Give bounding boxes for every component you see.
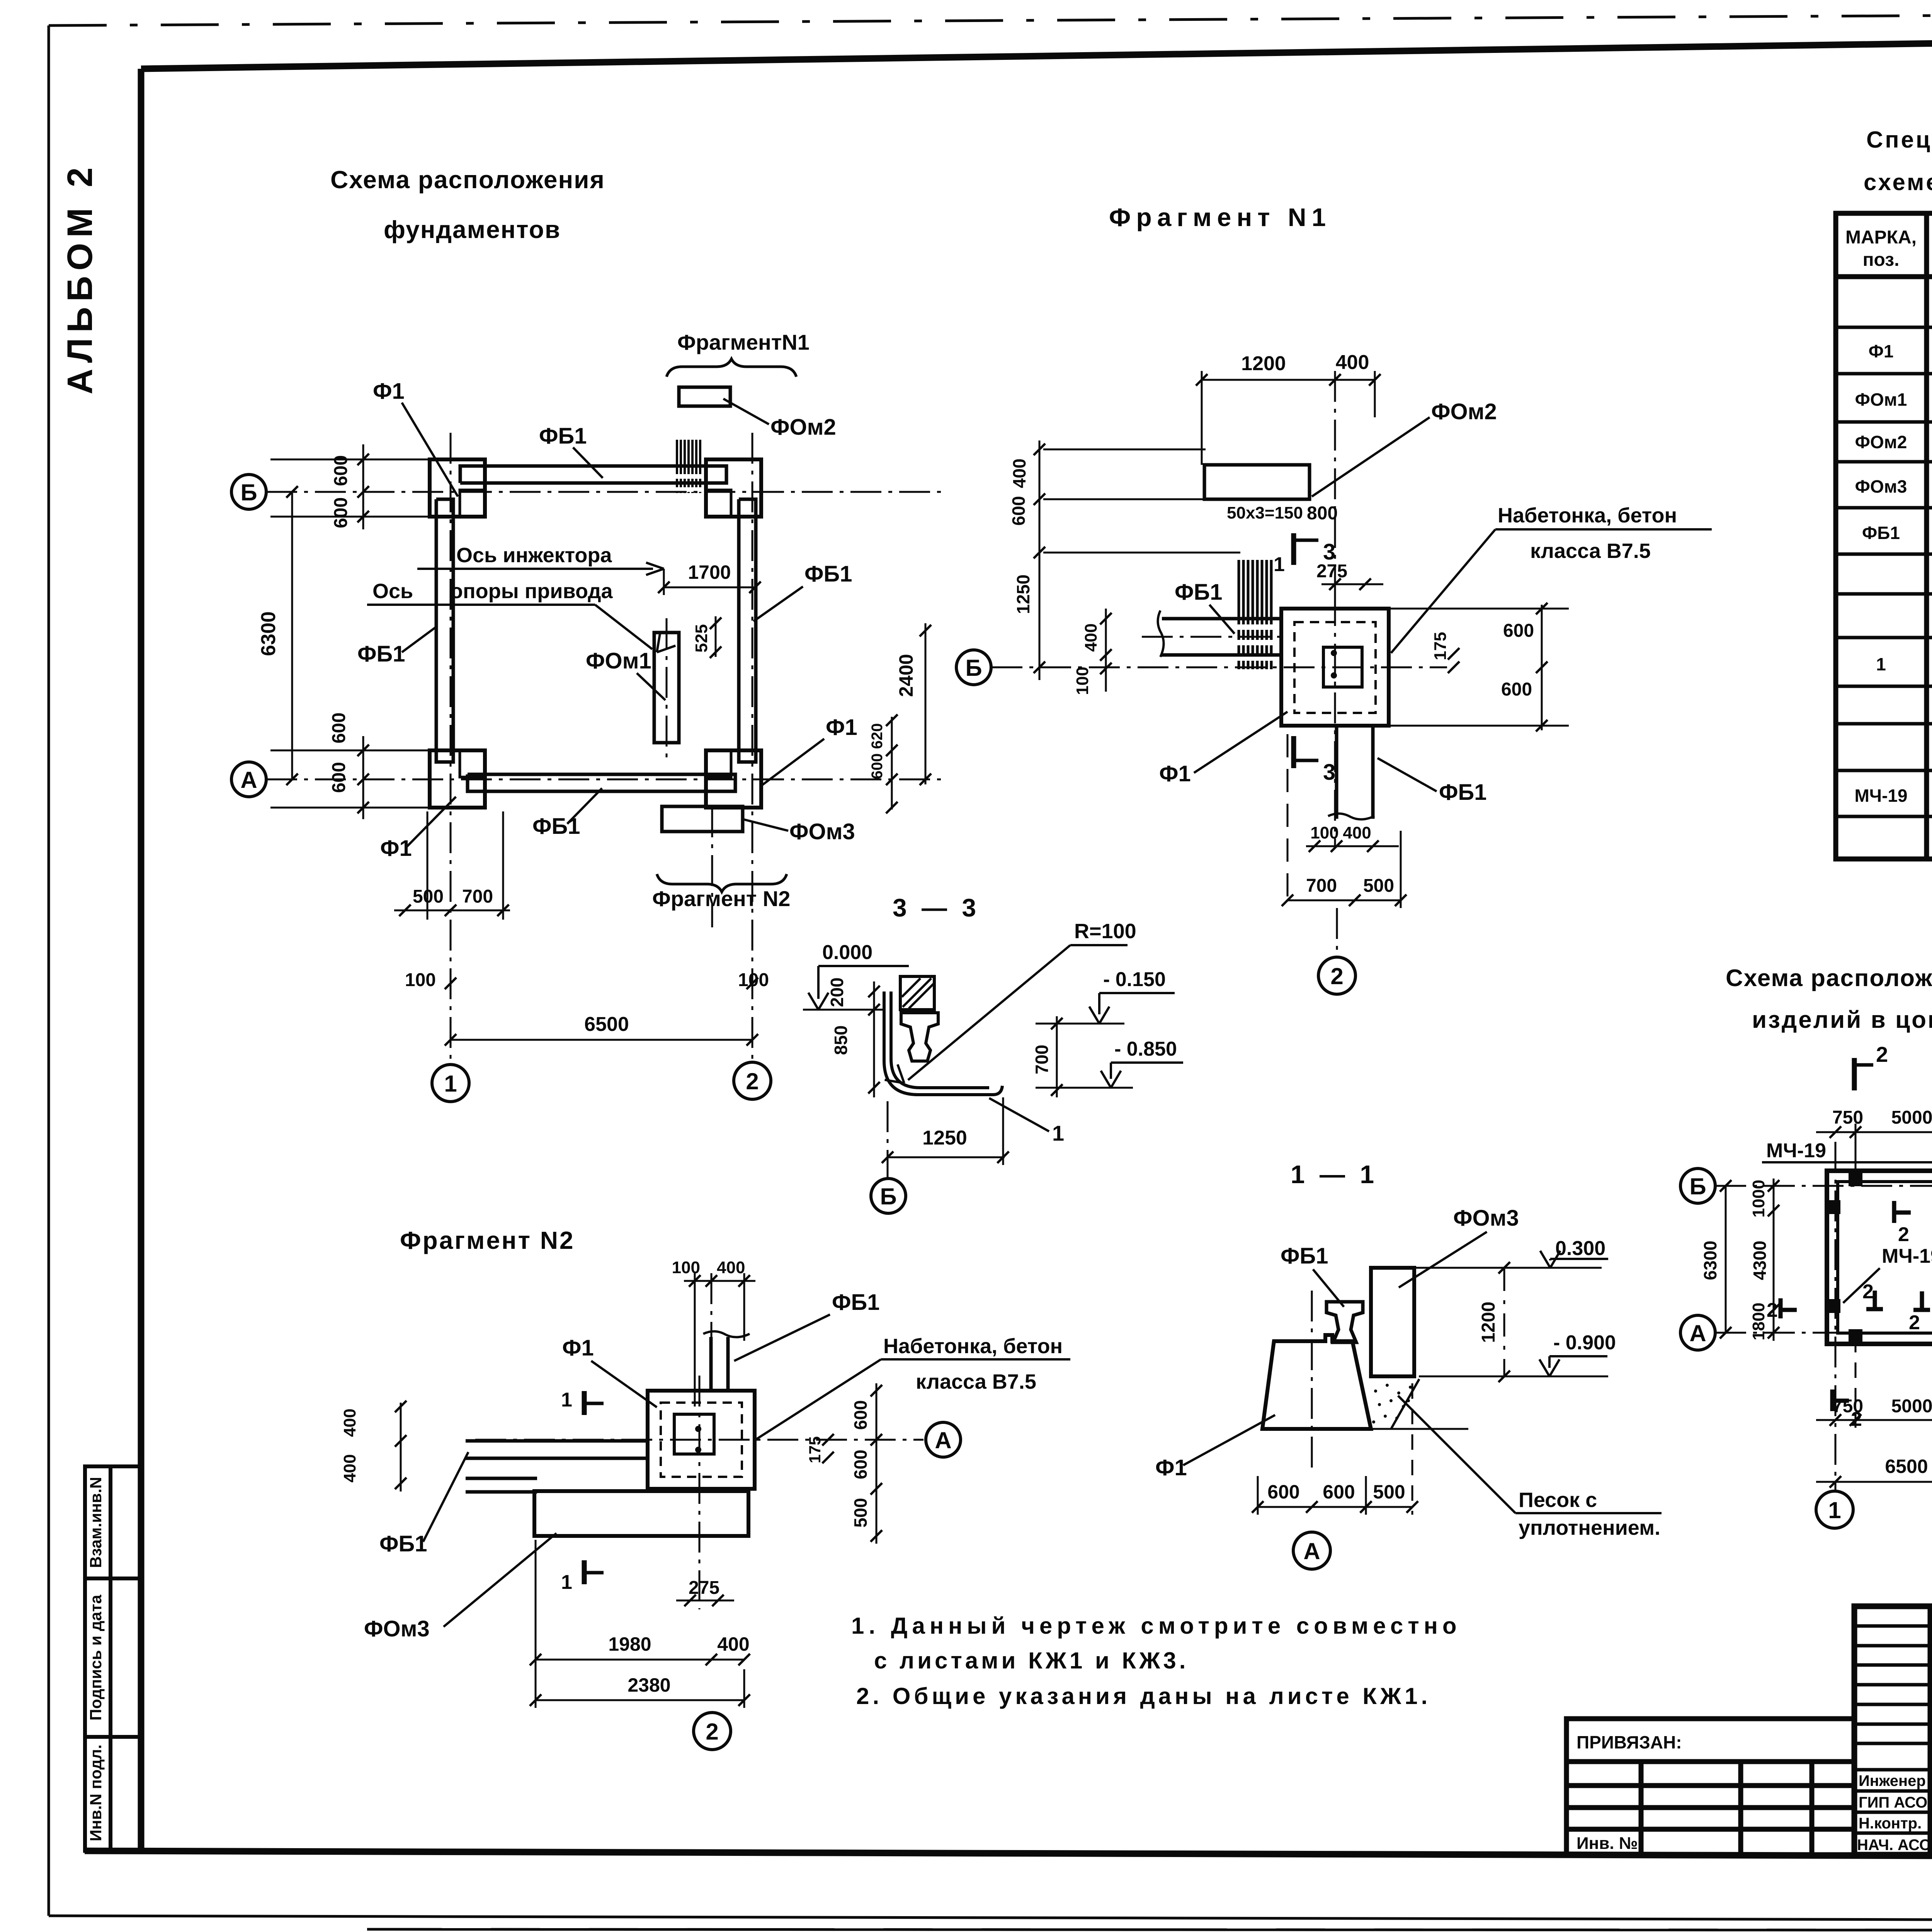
svg-text:ФБ1: ФБ1 [1175, 580, 1222, 605]
svg-text:ПРИВЯЗАН:: ПРИВЯЗАН: [1577, 1732, 1682, 1752]
svg-text:- 0.900: - 0.900 [1553, 1332, 1616, 1354]
labels with leaders [357, 379, 857, 861]
svg-text:100: 100 [405, 970, 436, 990]
svg-text:1: 1 [1274, 553, 1285, 576]
svg-text:Ф1: Ф1 [826, 715, 857, 740]
dims left [873, 981, 875, 1097]
svg-text:Ф1: Ф1 [1159, 761, 1191, 786]
sand [1391, 1379, 1419, 1429]
section marks inside [1781, 1200, 1932, 1411]
top dims [1816, 1131, 1932, 1133]
hatched block [900, 976, 934, 1010]
svg-text:600: 600 [331, 497, 351, 528]
svg-text:2: 2 [1898, 1223, 1909, 1246]
svg-text:Фрагмент N2: Фрагмент N2 [400, 1226, 575, 1254]
svg-text:2: 2 [1330, 963, 1343, 989]
svg-text:Взам.инв.N: Взам.инв.N [87, 1477, 105, 1568]
svg-text:изделий в цоколе: изделий в цоколе [1752, 1007, 1932, 1033]
svg-text:4300: 4300 [1750, 1241, 1770, 1280]
svg-text:Н.контр.: Н.контр. [1859, 1815, 1922, 1832]
svg-text:1: 1 [561, 1571, 572, 1594]
axis circle B + 2 [956, 650, 991, 685]
svg-text:500: 500 [1363, 876, 1394, 896]
1700 dim [664, 587, 755, 588]
svg-text:700: 700 [1306, 876, 1337, 896]
plan squares [1827, 1171, 1932, 1344]
svg-text:600: 600 [1323, 1481, 1355, 1503]
section 3 top [1291, 533, 1296, 565]
corner foundation blocks F1 [430, 459, 761, 808]
svg-text:А: А [240, 767, 257, 793]
svg-text:600: 600 [1503, 621, 1534, 641]
bottom dims [1816, 1419, 1932, 1421]
svg-text:МЧ-19: МЧ-19 [1882, 1245, 1932, 1267]
slab FOm3 [534, 1491, 748, 1536]
top dims [684, 1280, 755, 1282]
svg-text:ФрагментN1: ФрагментN1 [677, 330, 810, 354]
1200 dim [1503, 1268, 1505, 1376]
svg-text:Набетонка, бетон: Набетонка, бетон [1498, 504, 1677, 527]
left attribute boxes [85, 1466, 141, 1851]
svg-text:Ф1: Ф1 [562, 1335, 594, 1361]
left dimension chain 600s [270, 444, 430, 819]
FOm3 rect [1371, 1268, 1414, 1376]
bottom dims [1258, 1506, 1412, 1508]
svg-text:600: 600 [1267, 1481, 1299, 1503]
svg-text:ФБ1: ФБ1 [1862, 523, 1900, 543]
svg-text:1: 1 [561, 1389, 572, 1411]
svg-text:Схема расположения: Схема расположения [330, 166, 605, 194]
svg-text:400: 400 [340, 1454, 359, 1482]
right dims [1541, 605, 1543, 730]
svg-text:Ф1: Ф1 [1869, 341, 1894, 361]
svg-text:ФБ1: ФБ1 [1439, 780, 1486, 805]
beam profile [1327, 1302, 1363, 1342]
svg-text:400: 400 [717, 1633, 749, 1655]
svg-text:класса В7.5: класса В7.5 [916, 1370, 1036, 1393]
svg-text:1: 1 [1828, 1497, 1841, 1523]
svg-text:600: 600 [331, 455, 351, 486]
svg-text:2. Общие указания даны н: 2. Общие указания даны на листе КЖ1. [856, 1683, 1431, 1709]
svg-text:700: 700 [1032, 1045, 1052, 1075]
svg-text:750: 750 [1832, 1396, 1863, 1417]
foundation square [1281, 609, 1389, 726]
svg-text:600: 600 [1009, 496, 1029, 526]
svg-text:2: 2 [706, 1719, 718, 1745]
svg-text:Б: Б [240, 480, 257, 505]
svg-text:ФБ1: ФБ1 [539, 423, 587, 449]
bottom dims [1306, 845, 1399, 847]
svg-text:1: 1 [1052, 1121, 1064, 1145]
svg-text:А: А [1689, 1320, 1706, 1346]
700 dim [1056, 1016, 1058, 1097]
svg-text:МЧ-19: МЧ-19 [1766, 1139, 1826, 1162]
svg-text:Ф1: Ф1 [380, 836, 412, 861]
svg-text:850: 850 [831, 1026, 851, 1055]
FOm1 rect [654, 633, 679, 743]
svg-text:МАРКА,: МАРКА, [1845, 227, 1917, 248]
svg-text:700: 700 [462, 886, 493, 907]
svg-text:600: 600 [329, 713, 349, 743]
svg-text:600: 600 [1501, 679, 1532, 700]
svg-text:50x3=150: 50x3=150 [1227, 503, 1303, 522]
svg-text:Инв. №: Инв. № [1577, 1834, 1638, 1853]
svg-text:2380: 2380 [628, 1674, 670, 1696]
svg-text:- 0.150: - 0.150 [1103, 968, 1166, 991]
svg-text:Спецификация к схеме распол: Спецификация к схеме расположения фундам… [1866, 127, 1932, 153]
svg-text:Инженер: Инженер [1859, 1772, 1926, 1789]
main title block [1854, 1606, 1932, 1855]
svg-text:1. Данный чертеж смотрите с: 1. Данный чертеж смотрите совместно [851, 1613, 1461, 1639]
svg-text:6500: 6500 [584, 1013, 629, 1036]
lower beam [1328, 726, 1374, 820]
620/600 right small dims [891, 717, 893, 810]
embedded plates [1827, 1172, 1932, 1343]
svg-text:1250: 1250 [1013, 575, 1033, 614]
svg-text:2: 2 [1909, 1311, 1920, 1334]
axis lines [266, 433, 947, 1065]
svg-text:6500: 6500 [1885, 1456, 1928, 1477]
svg-text:1800: 1800 [1749, 1303, 1768, 1340]
top dim [1202, 379, 1375, 381]
svg-text:175: 175 [806, 1436, 824, 1463]
section 2 mark top [1852, 1058, 1857, 1090]
svg-text:100: 100 [738, 970, 769, 990]
svg-text:400: 400 [1343, 823, 1371, 842]
svg-text:Б: Б [1689, 1173, 1706, 1199]
svg-text:1250: 1250 [922, 1127, 967, 1149]
svg-text:1200: 1200 [1241, 352, 1286, 375]
svg-text:- 0.850: - 0.850 [1114, 1038, 1177, 1060]
svg-text:400: 400 [1336, 351, 1369, 374]
svg-text:ФБ1: ФБ1 [379, 1531, 427, 1556]
svg-text:1: 1 [444, 1071, 457, 1097]
svg-text:ФОм1: ФОм1 [586, 648, 651, 673]
svg-text:МЧ-19: МЧ-19 [1854, 786, 1907, 806]
square [648, 1391, 755, 1489]
svg-text:ФОм2: ФОм2 [1431, 399, 1497, 424]
beams FB1 double lines [436, 466, 756, 791]
svg-text:Б: Б [880, 1184, 896, 1209]
svg-text:ФОм3: ФОм3 [789, 819, 855, 844]
left dims [1773, 1179, 1775, 1341]
bottom dims [536, 1659, 744, 1661]
svg-text:100: 100 [1310, 823, 1338, 842]
svg-text:Подпись и дата: Подпись и дата [87, 1595, 105, 1721]
svg-text:ФОм3: ФОм3 [364, 1616, 430, 1641]
svg-text:ФБ1: ФБ1 [1281, 1243, 1328, 1269]
svg-text:ФОм1: ФОм1 [1855, 389, 1907, 410]
svg-text:275: 275 [689, 1578, 719, 1598]
svg-text:Набетонка, бетон: Набетонка, бетон [883, 1335, 1063, 1358]
svg-text:фундаментов: фундаментов [384, 216, 561, 243]
svg-text:ФБ1: ФБ1 [804, 561, 852, 587]
privyazan box [1566, 1719, 1854, 1855]
axes [1715, 1142, 1932, 1491]
svg-text:0.000: 0.000 [822, 941, 872, 964]
svg-text:400: 400 [1009, 459, 1029, 488]
400/400 dims left [400, 1403, 402, 1492]
svg-text:Ось инжектора: Ось инжектора [456, 544, 612, 567]
svg-text:опоры привода: опоры привода [450, 580, 613, 603]
left dim chains N1 [1039, 440, 1041, 680]
svg-text:100: 100 [1073, 667, 1092, 695]
svg-text:схеме расположения закладных: схеме расположения закладных изделий в ц… [1864, 169, 1932, 195]
svg-text:Б: Б [965, 655, 982, 681]
right dims [876, 1383, 878, 1544]
svg-text:Схема расположения закладных: Схема расположения закладных [1726, 965, 1932, 992]
svg-text:600: 600 [869, 753, 886, 779]
svg-text:АЛЬБОМ 2: АЛЬБОМ 2 [60, 162, 100, 394]
svg-text:6300: 6300 [1700, 1241, 1720, 1280]
trapezoid [1262, 1335, 1371, 1429]
svg-text:2: 2 [1876, 1042, 1888, 1066]
svg-text:275: 275 [1316, 561, 1347, 582]
svg-text:400: 400 [1082, 623, 1100, 651]
svg-text:поз.: поз. [1863, 250, 1900, 270]
svg-text:с листами КЖ1 и КЖ3.: с листами КЖ1 и КЖ3. [874, 1648, 1189, 1673]
svg-text:200: 200 [827, 978, 847, 1007]
svg-text:ФОм3: ФОм3 [1453, 1206, 1519, 1231]
svg-text:1700: 1700 [688, 561, 731, 583]
525 dim [715, 616, 717, 657]
svg-text:525: 525 [692, 624, 711, 652]
svg-text:500: 500 [1373, 1481, 1405, 1503]
svg-text:ФБ1: ФБ1 [357, 641, 405, 667]
svg-text:1200: 1200 [1478, 1302, 1499, 1343]
svg-text:класса В7.5: класса В7.5 [1530, 539, 1651, 563]
svg-text:600: 600 [329, 762, 349, 793]
svg-text:НАЧ. АСО: НАЧ. АСО [1857, 1837, 1931, 1854]
vertical beam top [703, 1331, 750, 1391]
beams from left [466, 1441, 648, 1492]
svg-text:3 — 3: 3 — 3 [893, 893, 980, 922]
hatch bars [1239, 560, 1271, 669]
rail profile [901, 1013, 938, 1061]
svg-text:ФОм2: ФОм2 [1855, 432, 1907, 452]
svg-text:ФБ1: ФБ1 [832, 1290, 879, 1315]
L-angle [884, 992, 1002, 1095]
left beam [1158, 611, 1283, 657]
svg-text:Фрагмент N1: Фрагмент N1 [1109, 203, 1331, 231]
axis circle A [926, 1422, 961, 1457]
section 3 bottom [1291, 736, 1296, 768]
svg-text:500: 500 [850, 1498, 871, 1528]
svg-text:600: 600 [850, 1400, 871, 1430]
svg-text:6300: 6300 [257, 611, 280, 656]
svg-text:5000: 5000 [1891, 1396, 1932, 1417]
svg-text:Ф1: Ф1 [373, 379, 405, 404]
svg-text:1 — 1: 1 — 1 [1291, 1160, 1378, 1189]
svg-text:750: 750 [1832, 1107, 1863, 1128]
svg-text:А: А [935, 1427, 951, 1453]
FOm3 rect [662, 806, 743, 832]
svg-text:600: 600 [850, 1450, 871, 1480]
svg-text:1: 1 [1876, 654, 1886, 674]
svg-text:Ф1: Ф1 [1155, 1455, 1187, 1480]
svg-text:1000: 1000 [1749, 1180, 1768, 1218]
svg-text:100: 100 [672, 1258, 700, 1277]
svg-text:1980: 1980 [608, 1633, 651, 1655]
axis circles [231, 474, 771, 1102]
svg-text:Инв.N подл.: Инв.N подл. [87, 1745, 105, 1842]
svg-text:2400: 2400 [895, 654, 917, 697]
hatch bars top right [677, 440, 700, 493]
svg-text:ФОм2: ФОм2 [770, 415, 836, 440]
svg-text:уплотнением.: уплотнением. [1519, 1516, 1660, 1539]
svg-text:5000: 5000 [1891, 1107, 1932, 1128]
svg-text:А: А [1303, 1538, 1320, 1564]
svg-text:ФОм3: ФОм3 [1855, 476, 1907, 497]
svg-text:2: 2 [1862, 1281, 1874, 1303]
svg-text:0.300: 0.300 [1555, 1237, 1605, 1260]
svg-text:ГИП АСО: ГИП АСО [1859, 1794, 1927, 1811]
svg-text:Ось: Ось [372, 580, 413, 603]
2400 dim right [925, 623, 927, 784]
svg-text:3: 3 [1323, 760, 1335, 785]
svg-text:400: 400 [340, 1408, 359, 1437]
FOm2 rect [679, 387, 730, 406]
svg-text:400: 400 [717, 1258, 745, 1277]
svg-text:175: 175 [1431, 632, 1450, 660]
FOm2 rect + label [1204, 465, 1310, 499]
svg-text:620: 620 [869, 723, 886, 749]
bottom dims [394, 910, 510, 912]
svg-text:R=100: R=100 [1074, 920, 1136, 943]
svg-text:2: 2 [746, 1068, 759, 1094]
svg-text:800: 800 [1307, 503, 1338, 524]
svg-text:Песок с: Песок с [1519, 1488, 1597, 1512]
